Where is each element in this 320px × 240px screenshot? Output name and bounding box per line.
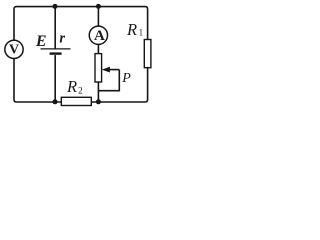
wire ammeter to rheostat [97,44,99,53]
label R2 [66,77,83,96]
wire battery branch upper (junction to long plate) [54,7,56,49]
rheostat body (vertical resistor box) [95,54,102,82]
svg-text:E: E [35,33,47,50]
rheostat wiper arrow P [102,67,120,73]
ammeter label A [94,28,105,44]
resistor R2 box (bottom wire) [61,97,91,105]
svg-text:V: V [9,43,19,58]
wire battery branch lower (short plate to bottom junction) [54,55,56,102]
svg-text:R: R [126,20,137,39]
svg-text:A: A [94,28,105,44]
wire wiper return (right then down then left) [99,70,120,91]
battery short thick plate [50,52,62,54]
voltmeter label V [9,43,19,58]
wire left (below voltmeter to bottom-left corner) [14,59,61,103]
wire top (left corner to right corner) [14,7,148,41]
junction dot top-right (ammeter branch, top wire) [96,4,101,9]
wire ammeter branch upper (junction to ammeter) [97,7,99,27]
svg-text:2: 2 [78,87,83,97]
battery long plate [41,48,71,50]
svg-text:1: 1 [139,27,144,37]
junction dot top-left (battery branch, top wire) [53,4,58,9]
ammeter A circle [89,26,107,44]
label R1 [126,20,143,39]
battery label E [35,33,47,50]
wire rheostat to bottom junction [97,82,99,102]
junction dot bottom-left (battery branch, bottom wire) [53,99,58,104]
junction dot bottom-right (rheostat branch, bottom wire) [96,99,101,104]
wire bottom right (R2 to bottom-right corner) [91,68,147,102]
svg-text:r: r [59,31,65,47]
svg-text:R: R [66,77,77,96]
svg-text:P: P [121,71,131,86]
wiper label P [121,71,131,86]
voltmeter V circle [5,40,23,58]
resistor R1 box (right wire) [144,40,151,68]
battery label r [59,31,65,47]
